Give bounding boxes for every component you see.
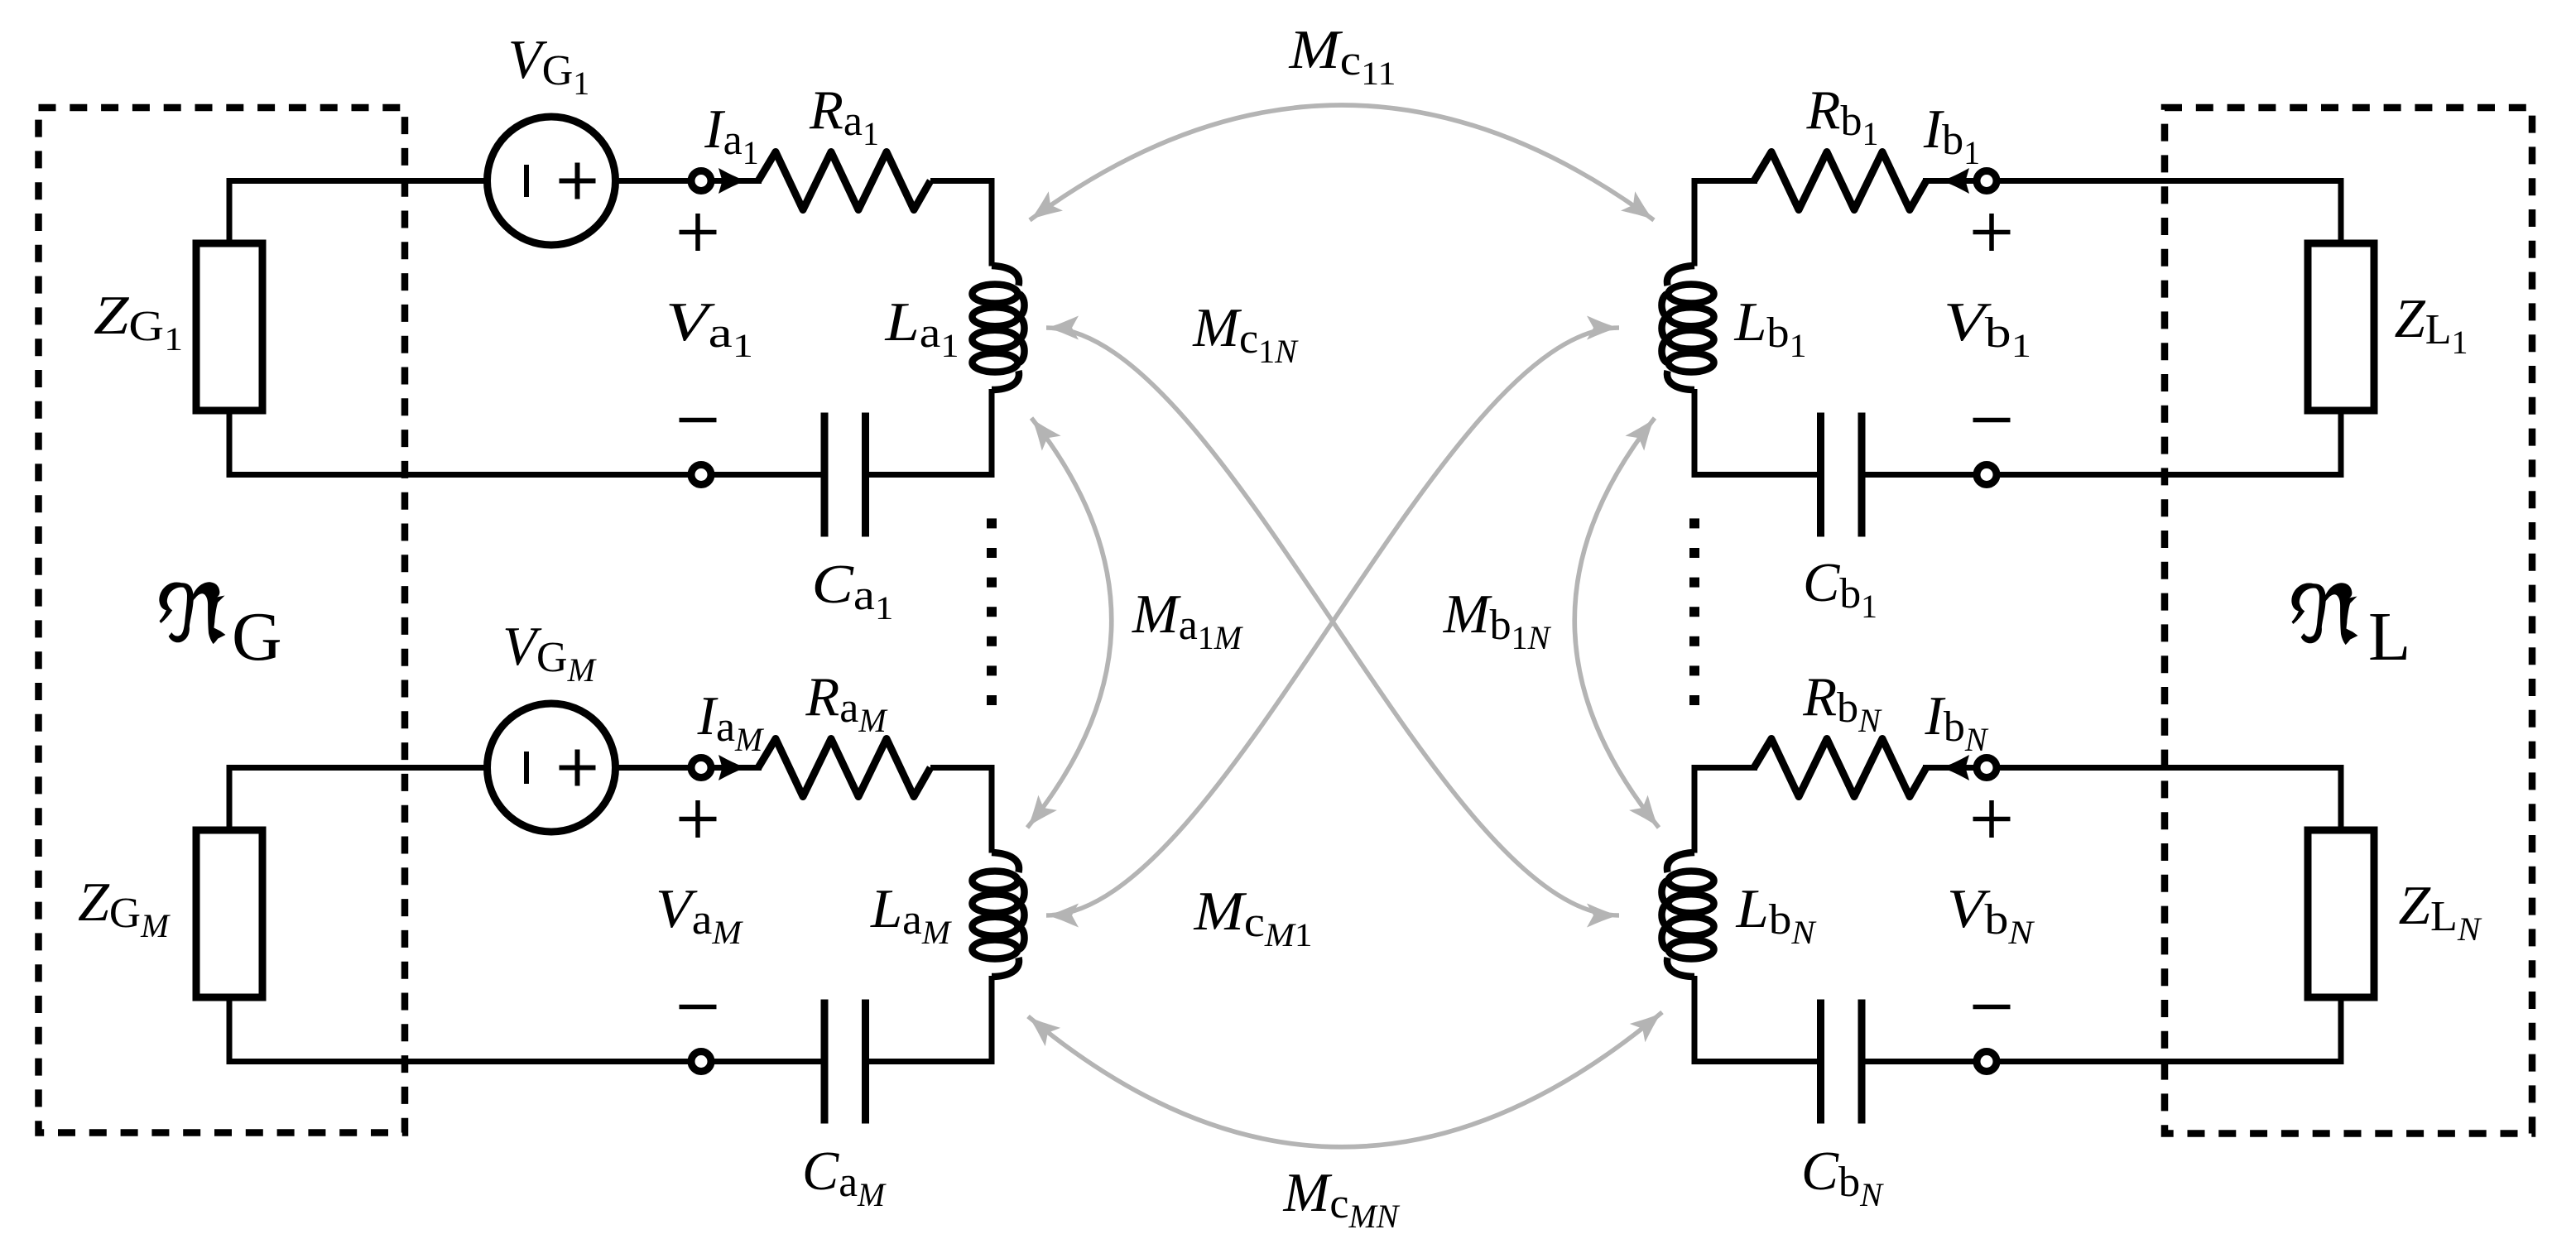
node terminal bottom of port bN xyxy=(1977,1052,1997,1072)
wire: resistor through node to Z branch xyxy=(1923,178,2341,184)
wire: Z branch vertical bottom xyxy=(2338,997,2344,1065)
node terminal top of port b1 xyxy=(1977,171,1997,191)
current arrow I_bN xyxy=(1940,755,1969,780)
wire: corner down to inductor xyxy=(989,178,995,267)
wire: Z branch vertical top xyxy=(2338,765,2344,831)
resistor R_a1 xyxy=(758,152,930,210)
voltage source V_G1 xyxy=(488,117,616,245)
wire: Z branch top to source xyxy=(229,765,488,771)
wire: Z branch vertical top xyxy=(2338,178,2344,244)
wire: resistor through node to Z branch xyxy=(1923,765,2341,771)
wire: source to resistor xyxy=(616,765,762,771)
wire: bottom corner to capacitor xyxy=(1694,1059,1817,1064)
node terminal bottom of port aM xyxy=(691,1052,711,1072)
coupling curve M_cM1 (L_aM to L_b1) xyxy=(1046,328,1619,915)
wire: resistor to corner xyxy=(930,765,992,771)
ellipsis dots left column xyxy=(987,518,997,528)
wire: bottom corner to capacitor xyxy=(1694,472,1817,478)
port voltage plus sign xyxy=(1973,817,2011,822)
wire: inductor to bottom corner xyxy=(989,389,995,478)
svg-text:G: G xyxy=(232,598,282,675)
impedance Z_GM xyxy=(196,830,262,997)
source plus terminal mark xyxy=(560,766,596,771)
wire: bottom corner to capacitor xyxy=(869,472,992,478)
impedance Z_G1 xyxy=(196,243,262,411)
wire: corner down to inductor xyxy=(989,765,995,853)
wire: Z branch vertical bottom xyxy=(227,411,233,478)
impedance Z_LN xyxy=(2308,830,2374,997)
wire: capacitor through node to Z branch xyxy=(1865,472,2341,478)
wire: Z branch vertical bottom xyxy=(227,997,233,1065)
node terminal top of port bN xyxy=(1977,758,1997,778)
coupling arc M_c11 (L_a1 to L_b1) xyxy=(1030,105,1654,220)
generator network box N_G (dashed) xyxy=(39,108,406,1133)
port voltage plus sign xyxy=(680,817,717,822)
wire: Z branch vertical top xyxy=(227,178,233,244)
coupling curve M_c1N (L_a1 to L_bN) xyxy=(1046,328,1619,915)
coupling arc M_a1M (L_a1 to L_aM) xyxy=(1027,418,1112,828)
network label N_G (fraktur) xyxy=(159,582,225,644)
network label N_L (fraktur) xyxy=(2291,583,2357,645)
inductor L_b1 xyxy=(1667,266,1694,286)
port voltage plus sign xyxy=(680,230,717,235)
svg-text:L: L xyxy=(2368,598,2410,675)
resistor R_aM xyxy=(758,739,930,797)
resistor R_b1 xyxy=(1754,152,1926,210)
wire: Z branch vertical top xyxy=(227,765,233,831)
source minus terminal mark xyxy=(524,752,529,784)
port voltage minus sign xyxy=(1973,1005,2011,1010)
node terminal top of port aM xyxy=(691,758,711,778)
capacitor C_aM xyxy=(862,1000,869,1124)
resistor R_bN xyxy=(1754,739,1926,797)
current arrow I_a1 xyxy=(718,168,747,194)
current arrow I_b1 xyxy=(1940,168,1969,194)
wire: source to resistor xyxy=(616,178,762,184)
capacitor C_a1 xyxy=(862,413,869,537)
source minus terminal mark xyxy=(524,165,529,197)
node terminal bottom of port a1 xyxy=(691,465,711,485)
inductor L_a1 xyxy=(992,266,1019,286)
ellipsis dots right column xyxy=(1689,518,1699,528)
inductor L_aM xyxy=(992,852,1019,872)
wire: corner down to inductor xyxy=(1692,765,1698,853)
wire: corner to resistor xyxy=(1694,765,1757,771)
load network box N_L (dashed) xyxy=(2165,108,2532,1134)
wire: capacitor through node to Z branch xyxy=(1865,1059,2341,1064)
wire: resistor to corner xyxy=(930,178,992,184)
coupling arc M_cMN (L_aM to L_bN) xyxy=(1028,1012,1662,1147)
port voltage minus sign xyxy=(680,418,717,423)
wire: corner down to inductor xyxy=(1692,178,1698,267)
node terminal bottom of port b1 xyxy=(1977,465,1997,485)
port voltage minus sign xyxy=(680,1005,717,1010)
impedance Z_L1 xyxy=(2308,243,2374,411)
wire: inductor to bottom corner xyxy=(1692,389,1698,478)
wire: Z branch top to source xyxy=(229,178,488,184)
source plus terminal mark xyxy=(560,179,596,184)
wire: inductor to bottom corner xyxy=(989,976,995,1064)
wire: capacitor through node to Z branch xyxy=(229,472,821,478)
voltage source V_GM xyxy=(488,704,616,832)
wire: bottom corner to capacitor xyxy=(869,1059,992,1064)
wire: Z branch vertical bottom xyxy=(2338,411,2344,478)
inductor L_bN xyxy=(1667,852,1694,872)
current arrow I_aM xyxy=(718,755,747,780)
wire: corner to resistor xyxy=(1694,178,1757,184)
wire: inductor to bottom corner xyxy=(1692,976,1698,1064)
port voltage minus sign xyxy=(1973,418,2011,423)
capacitor C_bN xyxy=(1817,1000,1824,1124)
node terminal top of port a1 xyxy=(691,171,711,191)
wire: capacitor through node to Z branch xyxy=(229,1059,821,1064)
capacitor C_b1 xyxy=(1817,413,1824,537)
coupling arc M_b1N (L_b1 to L_bN) xyxy=(1574,418,1659,828)
port voltage plus sign xyxy=(1973,230,2011,235)
